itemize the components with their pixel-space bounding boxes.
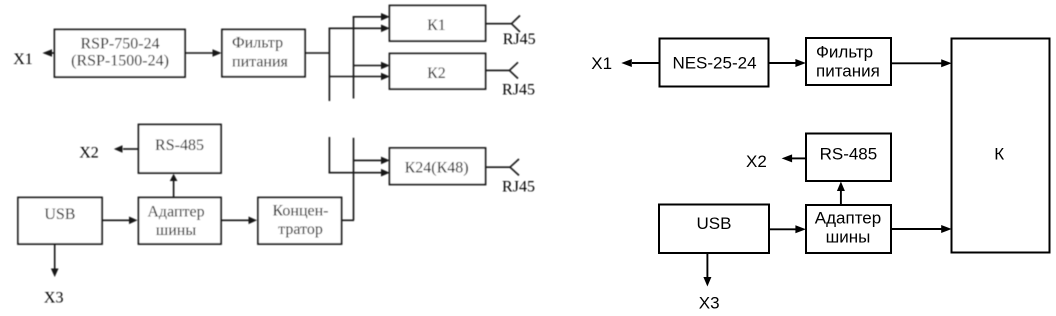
wire K24 to RJ45 connector bbox=[485, 159, 519, 175]
wire arrow USB to X3 bbox=[51, 244, 59, 277]
block RS-485 (left) bbox=[139, 125, 222, 174]
svg-text:К1: К1 bbox=[427, 17, 446, 34]
wire arrow v1 to K1 (lower) bbox=[329, 25, 390, 33]
svg-text:RJ45: RJ45 bbox=[503, 31, 536, 48]
svg-text:RJ45: RJ45 bbox=[502, 82, 535, 99]
wire arrow bus adapter to concentrator bbox=[221, 217, 257, 225]
wire filter to bus v1 bbox=[305, 52, 330, 54]
svg-text:X1: X1 bbox=[13, 51, 33, 68]
block RS-485 (right) bbox=[806, 134, 891, 182]
block K bbox=[952, 39, 1050, 253]
block filter (Фильтр питания, left) bbox=[222, 30, 305, 77]
svg-text:RSP-750-24: RSP-750-24 bbox=[80, 36, 159, 53]
svg-text:Фильтр: Фильтр bbox=[816, 43, 873, 62]
svg-text:RS-485: RS-485 bbox=[820, 145, 878, 164]
svg-text:NES-25-24: NES-25-24 bbox=[672, 54, 756, 73]
block K1 bbox=[390, 6, 486, 42]
svg-text:Концен-: Концен- bbox=[273, 203, 329, 220]
block concentrator (Концен-тратор) bbox=[258, 198, 342, 245]
wire arrow v1 to K2 (lower) bbox=[329, 73, 389, 81]
wire arrow v2 to K24 (upper) bbox=[354, 157, 390, 165]
svg-text:К24(К48): К24(К48) bbox=[405, 160, 469, 177]
wire arrow RS-485 to X2 bbox=[782, 154, 806, 162]
svg-text:USB: USB bbox=[697, 214, 732, 233]
block USB (left) bbox=[18, 198, 102, 245]
wire arrow RS-485 to X2 bbox=[114, 145, 139, 153]
wire arrow v2 to K1 (upper) bbox=[353, 13, 390, 21]
svg-text:Адаптер: Адаптер bbox=[815, 209, 881, 228]
svg-text:X1: X1 bbox=[591, 54, 612, 73]
wire arrow bus adapter to K bbox=[891, 225, 952, 233]
block RSP-750-24 (RSP-1500-24) power supply bbox=[55, 30, 186, 78]
wire arrow USB to X3 (right) bbox=[703, 253, 711, 287]
block filter (Фильтр питания, right) bbox=[806, 38, 891, 85]
wire arrow filter to K bbox=[891, 59, 952, 67]
svg-text:X2: X2 bbox=[746, 152, 767, 171]
block USB (right) bbox=[659, 205, 769, 254]
svg-text:(RSP-1500-24): (RSP-1500-24) bbox=[71, 53, 169, 70]
block K24 (K48) bbox=[390, 148, 486, 185]
wire arrow bus adapter to RS-485 (right) bbox=[837, 182, 845, 206]
svg-text:Фильтр: Фильтр bbox=[232, 35, 283, 52]
block K2 bbox=[390, 54, 486, 90]
wire bus v2 lower segment bbox=[353, 138, 355, 221]
svg-text:RS-485: RS-485 bbox=[155, 137, 204, 154]
svg-text:шины: шины bbox=[826, 228, 871, 247]
wire arrow USB to bus adapter (right) bbox=[769, 225, 806, 233]
svg-text:К2: К2 bbox=[427, 65, 446, 82]
wire bus v1 upper segment bbox=[328, 28, 330, 101]
wire bus v2 upper segment bbox=[353, 17, 355, 99]
svg-text:питания: питания bbox=[816, 62, 880, 81]
wire arrow USB to bus adapter bbox=[103, 217, 138, 225]
svg-text:шины: шины bbox=[156, 222, 196, 239]
svg-text:USB: USB bbox=[44, 206, 75, 223]
wire arrow bus adapter to RS-485 bbox=[170, 174, 178, 198]
wire arrow RSP to filter bbox=[185, 49, 222, 57]
block bus adapter (Адаптер шины, left) bbox=[139, 198, 222, 245]
wire K2 to RJ45 connector bbox=[485, 62, 518, 78]
wire arrow NES to X1 bbox=[621, 59, 659, 67]
svg-text:RJ45: RJ45 bbox=[502, 179, 535, 196]
svg-text:X3: X3 bbox=[699, 294, 720, 313]
wire concentrator to bus v2 bbox=[342, 219, 354, 221]
wire arrow v1 to K24 (lower) bbox=[329, 169, 390, 177]
block NES-25-24 power supply bbox=[660, 39, 769, 87]
svg-text:Адаптер: Адаптер bbox=[147, 204, 204, 221]
svg-text:тратор: тратор bbox=[278, 221, 323, 238]
wire arrow RSP to X1 bbox=[43, 49, 55, 57]
block bus adapter (Адаптер шины, right) bbox=[806, 205, 891, 253]
svg-text:питания: питания bbox=[232, 54, 289, 71]
svg-text:X3: X3 bbox=[44, 290, 64, 307]
svg-text:К: К bbox=[994, 145, 1004, 164]
wire arrow v2 to K2 (upper) bbox=[354, 62, 390, 70]
wire arrow NES to filter bbox=[769, 59, 806, 67]
wire K1 to RJ45 connector bbox=[485, 16, 520, 32]
svg-text:X2: X2 bbox=[79, 145, 99, 162]
wire bus v1 lower segment bbox=[328, 137, 330, 173]
